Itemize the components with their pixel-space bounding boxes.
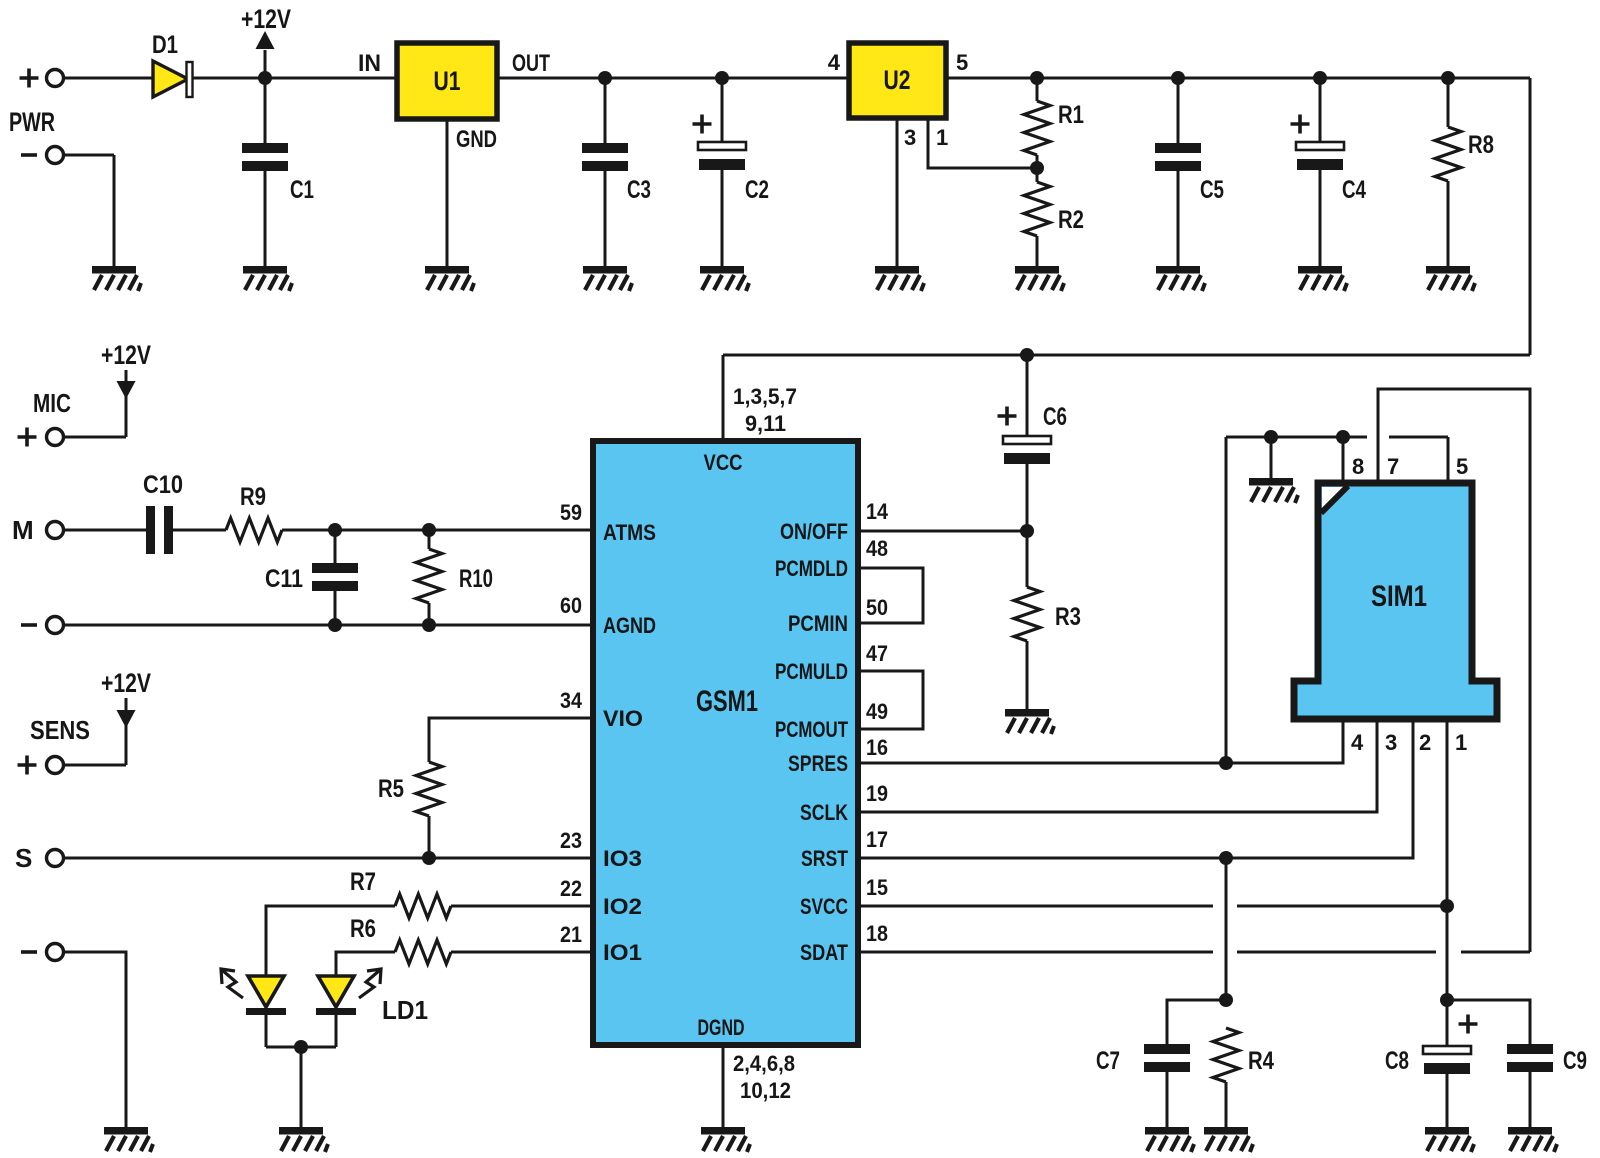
wire SVCC pin15 to SIM1 pin1 (858, 905, 1213, 908)
wire U1 OUT to U2 pin4 (497, 77, 849, 80)
ground (U2) (875, 266, 924, 291)
wire LED cathodes to ground (265, 1015, 268, 1047)
svg-text:R2: R2 (1058, 206, 1084, 234)
capacitor C10 (146, 506, 155, 554)
capacitor C6 (electrolytic) (1020, 348, 1034, 362)
LED LD1a (248, 976, 284, 1007)
svg-text:5: 5 (956, 50, 968, 75)
wire M to C10 (64, 529, 146, 532)
wire GSM1 VCC to rail (722, 355, 725, 441)
svg-text:C3: C3 (627, 176, 651, 204)
svg-text:SPRES: SPRES (788, 751, 848, 776)
svg-text:C1: C1 (290, 176, 314, 204)
ground (U1) (425, 266, 474, 291)
svg-text:R3: R3 (1055, 603, 1081, 631)
capacitor C4 (electrolytic) (1313, 71, 1327, 85)
ground (C1) (243, 266, 292, 291)
svg-text:C2: C2 (745, 176, 769, 204)
svg-text:59: 59 (560, 500, 582, 525)
node C7/R4 (1219, 993, 1233, 1007)
terminal M (47, 522, 64, 539)
svg-text:PCMULD: PCMULD (775, 659, 848, 684)
wire SRST pin17 to SIM1 pin2 (858, 719, 1413, 858)
svg-text:C6: C6 (1043, 403, 1067, 431)
wire PCMULD pin47 loop to PCMOUT pin49 (858, 671, 923, 729)
svg-text:49: 49 (866, 699, 888, 724)
capacitor C8 (electrolytic) (1446, 1000, 1449, 1046)
svg-text:IO2: IO2 (603, 894, 642, 919)
wire SIM pin8 (1342, 437, 1345, 483)
capacitor C5 (1171, 71, 1185, 85)
capacitor C2 (electrolytic) (715, 71, 729, 85)
svg-text:50: 50 (866, 595, 888, 620)
ground (C7) (1145, 1127, 1194, 1152)
svg-text:4: 4 (828, 50, 841, 75)
svg-text:R5: R5 (378, 775, 404, 803)
svg-text:9,11: 9,11 (745, 411, 786, 436)
svg-text:23: 23 (560, 828, 582, 853)
ground (C2) (700, 266, 749, 291)
terminal MIC+ (47, 429, 64, 446)
ground (SIM) (1249, 478, 1298, 503)
svg-text:C8: C8 (1385, 1047, 1409, 1075)
LED LD1a emission arrow (222, 970, 243, 998)
module GSM1 (593, 441, 858, 1045)
wire ground stub (1270, 437, 1273, 478)
wire MIC+ to +12V (64, 436, 126, 439)
svg-text:C10: C10 (143, 471, 183, 499)
node SPRES riser (1219, 756, 1233, 770)
svg-text:R7: R7 (350, 868, 376, 896)
LED LD1b emission arrow (359, 970, 380, 998)
wire U1 GND to ground (446, 119, 449, 266)
svg-text:IN: IN (358, 50, 381, 77)
wire node to U1 IN (265, 77, 397, 80)
node R10 top (422, 523, 436, 537)
wire U2 pin1 to R1/R2 node (928, 118, 1037, 168)
svg-text:C5: C5 (1200, 176, 1224, 204)
ground (C8) (1425, 1127, 1474, 1152)
svg-text:SENS: SENS (30, 715, 90, 745)
power symbol +12V (top) (264, 50, 267, 78)
capacitor C9 (1507, 1044, 1553, 1054)
wire PCMDLD pin48 loop to PCMIN pin50 (858, 568, 923, 623)
svg-text:7: 7 (1387, 454, 1399, 479)
ground (R2) (1015, 266, 1064, 291)
resistor R2 (1036, 168, 1039, 182)
resistor R5 (428, 816, 431, 858)
svg-text:14: 14 (866, 499, 889, 524)
ground (PWR-) (47, 147, 64, 164)
LED LD1b (318, 976, 354, 1007)
terminal MIC- (47, 617, 64, 634)
svg-text:C9: C9 (1563, 1047, 1587, 1075)
ground (SENS-) (104, 1127, 153, 1152)
node R1/R2 junction (1030, 161, 1044, 175)
svg-text:IO3: IO3 (603, 846, 642, 871)
ground (R3) (1005, 709, 1054, 734)
svg-text:2,4,6,8: 2,4,6,8 (733, 1051, 795, 1076)
svg-text:LD1: LD1 (382, 995, 428, 1025)
ground (R8) (1426, 266, 1475, 291)
wire R6 to GSM1 IO1 pin 21 (451, 951, 593, 954)
wire SIM pin1 down (1446, 719, 1449, 1000)
wire SIM pin7 to SDAT net (1378, 389, 1530, 952)
wire R7 to GSM1 IO2 pin 22 (451, 905, 593, 908)
svg-text:PWR: PWR (9, 107, 55, 137)
svg-text:D1: D1 (152, 31, 178, 59)
svg-text:R1: R1 (1058, 101, 1084, 129)
svg-text:3: 3 (1385, 730, 1397, 755)
svg-text:S: S (15, 843, 32, 873)
svg-text:C7: C7 (1096, 1047, 1120, 1075)
svg-text:IO1: IO1 (603, 940, 642, 965)
wire D1 to node +12V (193, 77, 265, 80)
node SVCC/pin1 (1440, 899, 1454, 913)
wire SIM top net (1226, 436, 1367, 439)
ground (R4) (1204, 1127, 1253, 1152)
svg-text:PCMOUT: PCMOUT (775, 717, 848, 742)
resistor R4 (1213, 1028, 1239, 1082)
regulator U1 (397, 43, 497, 119)
node ground stub (1264, 430, 1278, 444)
wire SENS+ to +12V (64, 764, 126, 767)
wire ON/OFF pin 14 to C6/R3 node (858, 530, 1027, 533)
label + (PWR plus) (20, 69, 39, 88)
wire SENS- to ground (64, 952, 126, 1127)
node C8 top (1440, 993, 1454, 1007)
wire R6 to LED2 (336, 952, 395, 975)
regulator U2 (849, 43, 946, 118)
svg-text:47: 47 (866, 641, 888, 666)
node ON/OFF junction (1020, 524, 1034, 538)
wire +V rail from U2 pin5 to right edge (946, 77, 1530, 80)
svg-text:16: 16 (866, 735, 888, 760)
ground (LD1) (279, 1127, 328, 1152)
svg-text:OUT: OUT (512, 50, 550, 77)
svg-text:VCC: VCC (704, 450, 743, 475)
svg-text:MIC: MIC (33, 388, 71, 418)
resistor R8 (1441, 71, 1455, 85)
wire U2 pin3 to ground (896, 118, 899, 266)
svg-text:1: 1 (936, 125, 948, 150)
capacitor C3 (598, 71, 612, 85)
svg-text:VIO: VIO (603, 706, 643, 731)
wire C10 to R9 (173, 529, 226, 532)
terminal SENS- (47, 944, 64, 961)
svg-text:3: 3 (904, 125, 916, 150)
node LED junction (294, 1040, 308, 1054)
svg-text:SDAT: SDAT (800, 940, 848, 965)
svg-text:17: 17 (866, 827, 888, 852)
svg-text:U1: U1 (434, 66, 461, 96)
svg-text:SIM1: SIM1 (1371, 580, 1427, 613)
svg-text:21: 21 (560, 922, 582, 947)
terminal PWR+ (47, 70, 64, 87)
svg-text:5: 5 (1456, 454, 1468, 479)
svg-text:18: 18 (866, 921, 888, 946)
svg-text:GSM1: GSM1 (696, 685, 758, 718)
wire R9 to GSM1 ATMS pin 59 (282, 529, 593, 532)
wire R7 to LED1 (266, 906, 395, 975)
svg-text:C11: C11 (265, 565, 303, 593)
svg-text:34: 34 (560, 688, 583, 713)
ground (C5) (1156, 266, 1205, 291)
resistor R1 (1030, 71, 1044, 85)
svg-text:R9: R9 (240, 483, 266, 511)
ground (C3) (583, 266, 632, 291)
svg-text:U2: U2 (884, 65, 911, 95)
svg-text:R4: R4 (1248, 1047, 1274, 1075)
svg-text:ATMS: ATMS (603, 520, 656, 545)
wire S to GSM1 IO3 pin 23 (64, 857, 593, 860)
svg-text:48: 48 (866, 536, 888, 561)
wire SPRES pin16 to SIM1 pin4 (858, 719, 1343, 763)
svg-text:ON/OFF: ON/OFF (780, 519, 848, 544)
wire PWR+ to D1 (64, 77, 152, 80)
node SRST dropper (1219, 851, 1233, 865)
node C11 top (328, 523, 342, 537)
wire SDAT pin18 (858, 951, 1213, 954)
svg-text:10,12: 10,12 (740, 1078, 791, 1103)
wire MIC- to GSM1 AGND pin 60 (64, 624, 593, 627)
svg-text:19: 19 (866, 781, 888, 806)
node C11 bottom (328, 618, 342, 632)
svg-text:8: 8 (1352, 454, 1364, 479)
node SIM pin8 (1336, 430, 1350, 444)
svg-text:1,3,5,7: 1,3,5,7 (733, 384, 797, 409)
terminal SENS+ (47, 757, 64, 774)
resistor R3 (1026, 531, 1029, 587)
svg-text:AGND: AGND (603, 613, 656, 638)
ground (C4) (1298, 266, 1347, 291)
svg-text:SVCC: SVCC (800, 894, 848, 919)
svg-text:+12V: +12V (101, 668, 151, 698)
svg-text:SCLK: SCLK (800, 800, 848, 825)
svg-text:PCMDLD: PCMDLD (775, 556, 848, 581)
node junction at C1 (258, 71, 272, 85)
svg-text:+12V: +12V (101, 340, 151, 370)
svg-text:22: 22 (560, 876, 582, 901)
ground (DGND) (701, 1127, 750, 1152)
node R5 bottom (422, 851, 436, 865)
wire C8 node to C9 (1447, 1000, 1530, 1044)
terminal S (47, 850, 64, 867)
resistor R10 (428, 530, 431, 549)
svg-text:15: 15 (866, 875, 888, 900)
svg-text:R6: R6 (350, 915, 376, 943)
wire SCLK pin19 to SIM1 pin3 (858, 719, 1377, 812)
resistor R9 (226, 518, 282, 542)
svg-text:+12V: +12V (241, 4, 291, 34)
wire riser SPRES to SIM top net (1225, 437, 1228, 763)
diode D1 (153, 61, 188, 97)
wire GSM1 DGND to ground (722, 1045, 725, 1127)
svg-text:PCMIN: PCMIN (788, 611, 848, 636)
SIM holder SIM1 (1294, 483, 1497, 719)
wire +V rail right edge down to VCC wire (1529, 78, 1532, 355)
svg-text:R8: R8 (1468, 131, 1494, 159)
svg-text:60: 60 (560, 593, 582, 618)
node R10 bottom (422, 618, 436, 632)
svg-text:R10: R10 (459, 565, 493, 593)
svg-text:DGND: DGND (698, 1015, 745, 1040)
svg-text:M: M (12, 515, 34, 545)
ground (C9) (1508, 1127, 1557, 1152)
svg-text:1: 1 (1455, 730, 1467, 755)
wire SRST to C7/R4 node (1225, 858, 1228, 1000)
svg-text:SRST: SRST (801, 846, 848, 871)
capacitor C11 (334, 530, 337, 563)
svg-text:GND: GND (456, 126, 497, 153)
capacitor C1 (264, 78, 267, 143)
svg-text:4: 4 (1351, 730, 1364, 755)
capacitor C7 (1167, 1000, 1226, 1044)
svg-text:2: 2 (1419, 730, 1431, 755)
svg-text:C4: C4 (1342, 176, 1366, 204)
